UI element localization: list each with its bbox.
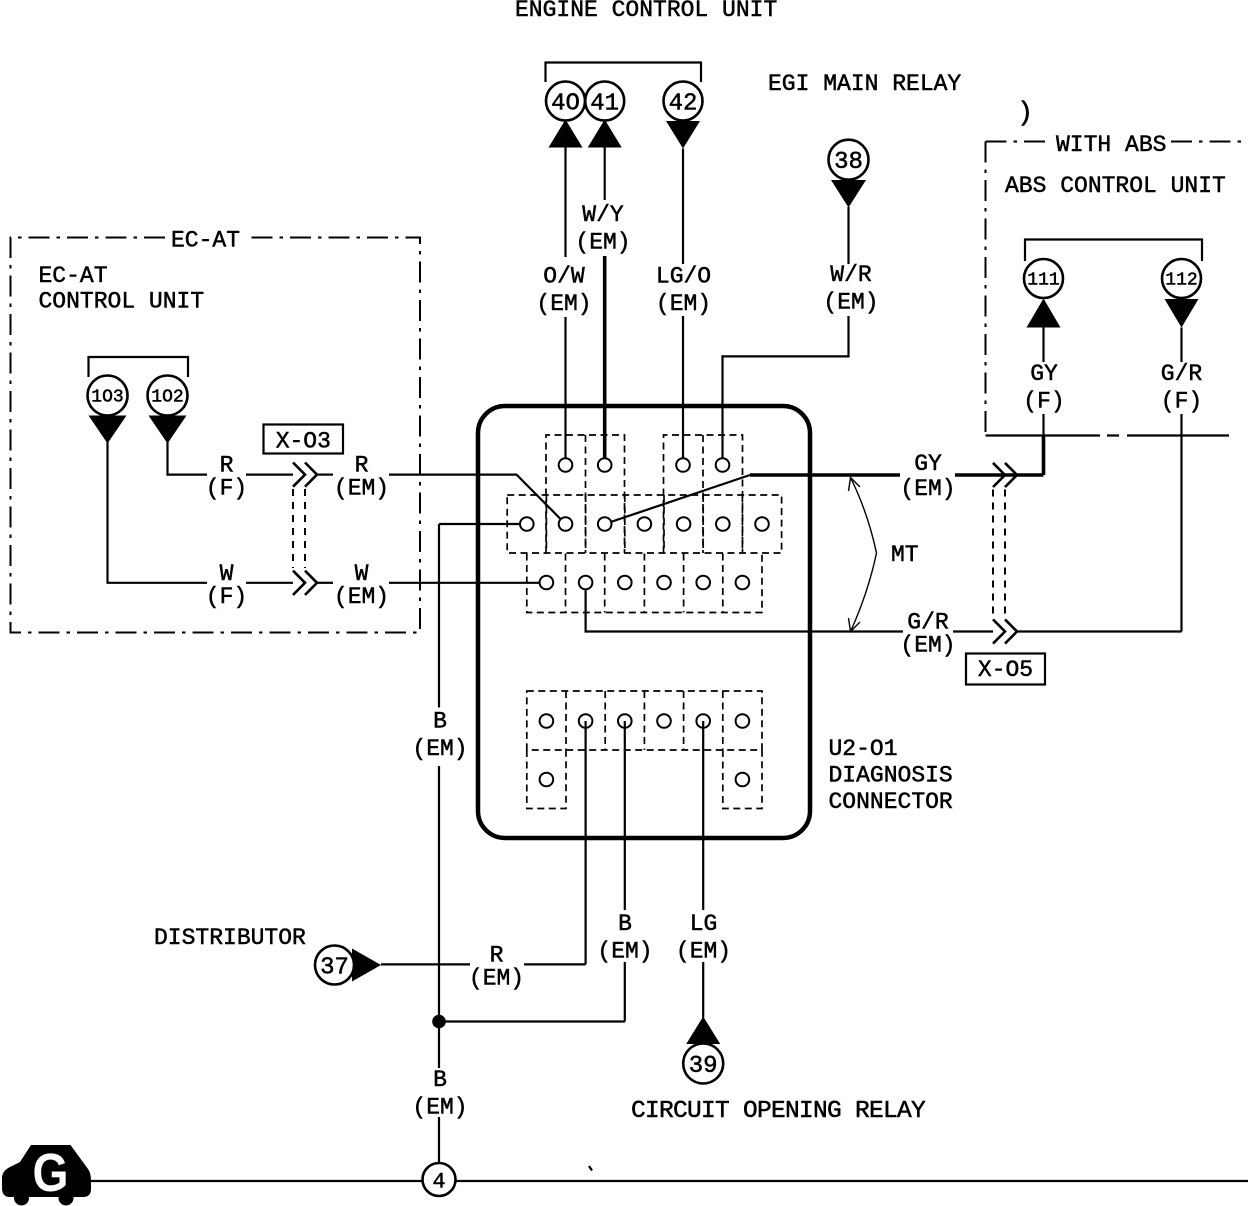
connector pins second row (540, 576, 750, 590)
svg-text:111: 111 (1027, 271, 1059, 291)
svg-text:1O3: 1O3 (91, 388, 123, 408)
svg-text:W/Y: W/Y (582, 202, 624, 228)
pin housing middle row (507, 495, 781, 553)
wire R (EM) into connector (389, 475, 566, 524)
svg-text:38: 38 (834, 149, 863, 176)
MT range arrow (851, 478, 877, 632)
connector X-05 chevrons G/R row (993, 619, 1005, 643)
ABS box border bottom (986, 434, 1230, 436)
connector X-05 chevrons GY row (993, 463, 1005, 487)
pin housing bottom group row B (527, 750, 566, 809)
ABS box border left (985, 142, 987, 436)
svg-text:(EM): (EM) (823, 290, 878, 316)
triangle pin 37 (352, 949, 381, 982)
svg-text:(F): (F) (1023, 389, 1064, 415)
triangle pin 39 (686, 1017, 720, 1045)
wire B (EM) into connector (439, 523, 527, 525)
wire R (EM) bottom from connector (381, 721, 586, 964)
svg-text:ENGINE CONTROL UNIT: ENGINE CONTROL UNIT (515, 0, 777, 23)
svg-text:(EM): (EM) (676, 939, 731, 965)
triangle pin 102 (149, 416, 187, 444)
connector X-03 chevrons W row (293, 571, 305, 595)
terminal circle 38 (829, 140, 869, 180)
svg-text:LG: LG (690, 911, 718, 937)
connector pins top row (559, 458, 730, 472)
svg-text:(EM): (EM) (900, 476, 955, 502)
svg-text:): ) (1017, 99, 1033, 129)
svg-text:(EM): (EM) (334, 584, 389, 610)
triangle pin 103 (89, 416, 127, 444)
ground symbol wheels (14, 1191, 29, 1206)
svg-text:G/R: G/R (1161, 361, 1203, 387)
svg-text:4O: 4O (551, 90, 580, 117)
ABS box border top (986, 141, 1053, 143)
svg-text:1O2: 1O2 (151, 388, 183, 408)
svg-text:WITH ABS: WITH ABS (1056, 132, 1166, 158)
wire R(F) from pin 102 (168, 442, 208, 475)
svg-text:4: 4 (432, 1169, 445, 1194)
terminal circle 42 (664, 82, 703, 121)
svg-text:EGI MAIN RELAY: EGI MAIN RELAY (768, 71, 961, 97)
svg-text:(EM): (EM) (597, 939, 652, 965)
pin housing top-left (546, 435, 625, 553)
ground wire (91, 1180, 1248, 1182)
label box X-05 (966, 654, 1045, 685)
ground symbol G car body (2, 1145, 91, 1197)
svg-text:EC-AT: EC-AT (39, 263, 108, 289)
svg-text:(F): (F) (206, 476, 247, 502)
terminal circle 37 (315, 946, 354, 985)
bracket ECU pins 40-42 (546, 63, 702, 83)
pin housing top-right (664, 435, 743, 553)
wire G/R (EM) (586, 583, 1182, 632)
svg-text:DIAGNOSIS: DIAGNOSIS (829, 763, 953, 789)
terminal circle 41 (585, 82, 624, 121)
wire W/R pin38 to connector (847, 207, 849, 264)
svg-text:(EM): (EM) (575, 230, 630, 256)
svg-text:37: 37 (320, 954, 349, 981)
wire G/R(F) from pin 112 (1180, 328, 1182, 363)
wire B (EM) bottom from connector (439, 721, 625, 1022)
svg-text:(EM): (EM) (656, 291, 711, 317)
svg-text:B: B (433, 1067, 447, 1093)
wire GY diagonal from pin (605, 475, 750, 524)
pin housing bottom group row A (527, 691, 762, 750)
svg-text:B: B (618, 911, 632, 937)
svg-text:DISTRIBUTOR: DISTRIBUTOR (154, 925, 306, 951)
bracket ABS pins 111 112 (1025, 240, 1202, 262)
svg-text:O/W: O/W (543, 264, 585, 290)
wire GY (EM) (750, 473, 1044, 477)
triangle pin 111 (1027, 299, 1061, 328)
triangle pin 112 (1165, 299, 1199, 328)
svg-text:CONTROL UNIT: CONTROL UNIT (39, 289, 205, 315)
svg-text:(EM): (EM) (412, 736, 467, 762)
svg-text:39: 39 (689, 1053, 718, 1080)
terminal circle 102 (148, 376, 188, 416)
svg-text:ABS CONTROL UNIT: ABS CONTROL UNIT (1005, 173, 1226, 199)
svg-text:(F): (F) (206, 584, 247, 610)
EC-AT box border (11, 238, 421, 633)
svg-text:CIRCUIT OPENING RELAY: CIRCUIT OPENING RELAY (631, 1098, 926, 1125)
svg-text:42: 42 (669, 90, 698, 117)
wire O/W pin40 to connector (564, 147, 566, 257)
ground terminal circle 4 (423, 1163, 456, 1196)
wire W/Y pin41 to connector (604, 147, 606, 200)
svg-text:CONNECTOR: CONNECTOR (829, 789, 953, 815)
svg-text:(EM): (EM) (334, 476, 389, 502)
svg-text:LG/O: LG/O (656, 264, 711, 290)
terminal circle 103 (88, 376, 128, 416)
svg-text:(EM): (EM) (536, 291, 591, 317)
wire LG/O pin42 to connector (682, 149, 684, 265)
wire W(F) from pin 103 (108, 442, 208, 583)
svg-text:X-O3: X-O3 (276, 429, 331, 455)
connector X-03 dashed links (292, 489, 294, 568)
connector X-03 chevrons R row (293, 463, 305, 487)
wire W (EM) into connector (389, 582, 546, 584)
connector X-05 dashed links (992, 490, 994, 618)
svg-text:GY: GY (914, 451, 942, 477)
connector pins middle row (520, 517, 769, 531)
triangle pin 42 (666, 121, 700, 149)
svg-text:(EM): (EM) (900, 633, 955, 659)
svg-text:(EM): (EM) (469, 965, 524, 991)
svg-text:(EM): (EM) (412, 1095, 467, 1121)
terminal circle 111 (1024, 259, 1063, 298)
svg-text:B: B (433, 709, 447, 735)
svg-text:X-O5: X-O5 (978, 657, 1033, 683)
svg-text:EC-AT: EC-AT (171, 228, 240, 254)
connector pins bottom rows (540, 714, 750, 786)
wire B (EM) main vertical (438, 524, 440, 1163)
wire LG (EM) from connector (702, 721, 704, 1018)
label box X-03 (264, 425, 344, 454)
pin housing second row (527, 554, 762, 613)
connector U2-01 outline (478, 406, 810, 838)
svg-text:GY: GY (1030, 361, 1058, 387)
svg-text:41: 41 (590, 90, 619, 117)
wire W row through X-03 (246, 582, 293, 584)
svg-text:W/R: W/R (830, 262, 872, 288)
svg-text:U2-O1: U2-O1 (829, 736, 898, 762)
stray mark (589, 1166, 592, 1171)
wire GY(F) from pin 111 (1042, 328, 1044, 363)
svg-text:(F): (F) (1161, 389, 1202, 415)
svg-text:G: G (33, 1143, 69, 1203)
triangle pin 41 (588, 120, 622, 148)
terminal circle 40 (546, 82, 585, 121)
terminal circle 112 (1162, 259, 1201, 298)
triangle pin 40 (549, 120, 583, 148)
svg-text:112: 112 (1165, 271, 1197, 291)
triangle pin 38 (831, 180, 866, 208)
svg-text:MT: MT (891, 542, 919, 568)
terminal circle 39 (683, 1044, 723, 1084)
bracket EC-AT pins 103 102 (89, 357, 189, 377)
junction dot B wire (432, 1015, 446, 1029)
wire R row through X-03 (246, 474, 293, 476)
